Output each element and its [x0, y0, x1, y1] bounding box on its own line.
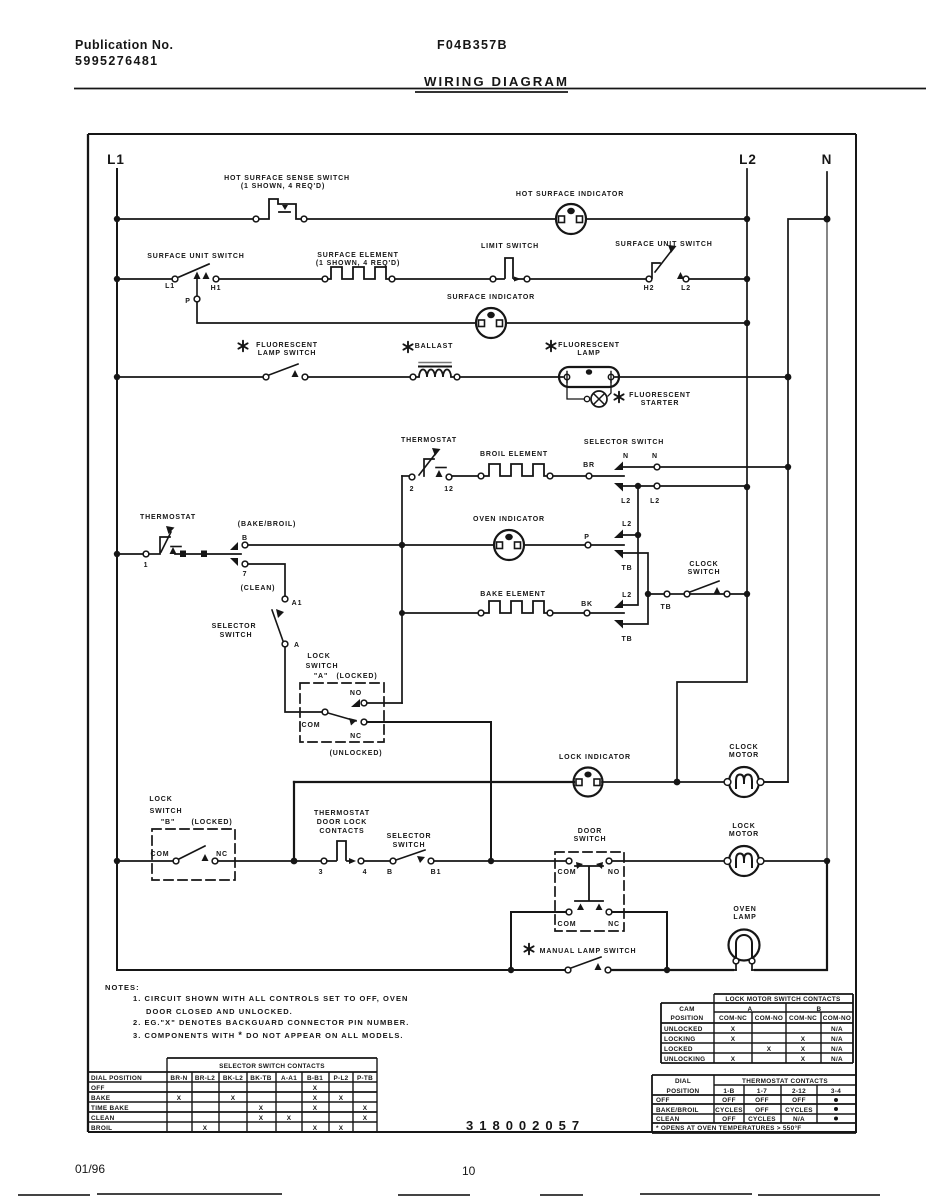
svg-text:COM: COM: [558, 921, 577, 928]
svg-text:X: X: [801, 1036, 806, 1043]
svg-text:THERMOSTAT: THERMOSTAT: [401, 437, 457, 444]
svg-text:THERMOSTAT: THERMOSTAT: [314, 810, 370, 817]
svg-text:5995276481: 5995276481: [75, 54, 159, 68]
svg-text:(LOCKED): (LOCKED): [336, 673, 377, 680]
svg-text:Publication No.: Publication No.: [75, 38, 173, 52]
svg-text:(LOCKED): (LOCKED): [191, 819, 232, 826]
svg-text:OFF: OFF: [722, 1097, 736, 1104]
svg-text:OFF: OFF: [91, 1085, 105, 1092]
svg-text:CYCLES: CYCLES: [748, 1116, 776, 1123]
svg-text:LOCKED: LOCKED: [664, 1046, 693, 1053]
svg-text:X: X: [259, 1105, 264, 1112]
svg-text:F04B357B: F04B357B: [437, 38, 508, 52]
svg-text:TB: TB: [660, 604, 671, 611]
svg-text:10: 10: [462, 1164, 476, 1178]
svg-text:(BAKE/BROIL): (BAKE/BROIL): [238, 521, 296, 528]
svg-text:LOCKING: LOCKING: [664, 1036, 696, 1043]
svg-text:X: X: [339, 1125, 344, 1132]
svg-text:MANUAL LAMP SWITCH: MANUAL LAMP SWITCH: [540, 948, 637, 955]
svg-text:MOTOR: MOTOR: [729, 831, 759, 838]
svg-text:CYCLES: CYCLES: [715, 1107, 743, 1114]
svg-text:COM: COM: [151, 851, 170, 858]
svg-text:LOCK MOTOR SWITCH CONTACTS: LOCK MOTOR SWITCH CONTACTS: [725, 996, 841, 1003]
svg-text:OVEN: OVEN: [733, 906, 756, 913]
svg-text:A1: A1: [292, 600, 303, 607]
svg-text:X: X: [313, 1105, 318, 1112]
svg-text:BALLAST: BALLAST: [415, 343, 454, 350]
svg-text:A: A: [748, 1006, 753, 1013]
svg-text:X: X: [731, 1056, 736, 1063]
svg-text:MOTOR: MOTOR: [729, 752, 759, 759]
svg-text:X: X: [801, 1056, 806, 1063]
svg-text:DIAL POSITION: DIAL POSITION: [91, 1075, 142, 1082]
svg-text:N: N: [822, 152, 833, 167]
svg-text:COM-NC: COM-NC: [719, 1015, 747, 1022]
svg-text:X: X: [801, 1046, 806, 1053]
svg-text:01/96: 01/96: [75, 1162, 105, 1176]
svg-text:(1 SHOWN, 4 REQ'D): (1 SHOWN, 4 REQ'D): [316, 260, 400, 267]
svg-text:SELECTOR: SELECTOR: [212, 623, 257, 630]
svg-text:DOOR CLOSED AND UNLOCKED.: DOOR CLOSED AND UNLOCKED.: [146, 1007, 293, 1016]
svg-text:TB: TB: [621, 565, 632, 572]
svg-text:L2: L2: [621, 498, 631, 505]
svg-text:BROIL: BROIL: [91, 1125, 112, 1132]
svg-text:BK: BK: [581, 601, 593, 608]
svg-text:LAMP: LAMP: [733, 914, 756, 921]
svg-text:CLEAN: CLEAN: [91, 1115, 115, 1122]
svg-text:STARTER: STARTER: [641, 400, 680, 407]
svg-text:2: 2: [410, 486, 415, 493]
svg-text:FLUORESCENT: FLUORESCENT: [629, 392, 691, 399]
svg-text:A-A1: A-A1: [281, 1075, 297, 1082]
svg-text:N/A: N/A: [831, 1046, 843, 1053]
svg-text:7: 7: [243, 571, 248, 578]
svg-text:OVEN INDICATOR: OVEN INDICATOR: [473, 516, 545, 523]
svg-text:X: X: [313, 1125, 318, 1132]
svg-text:L1: L1: [165, 283, 175, 290]
svg-text:1-7: 1-7: [757, 1088, 767, 1095]
svg-text:X: X: [259, 1115, 264, 1122]
svg-text:COM-NO: COM-NO: [755, 1015, 783, 1022]
svg-text:SELECTOR SWITCH: SELECTOR SWITCH: [584, 439, 664, 446]
svg-text:N/A: N/A: [831, 1026, 843, 1033]
svg-text:X: X: [313, 1095, 318, 1102]
svg-text:LOCK: LOCK: [732, 823, 755, 830]
svg-text:BROIL ELEMENT: BROIL ELEMENT: [480, 451, 548, 458]
svg-text:2. EG."X" DENOTES BACKGUARD C: 2. EG."X" DENOTES BACKGUARD CONNECTOR PI…: [133, 1018, 409, 1027]
svg-text:X: X: [767, 1046, 772, 1053]
svg-text:SWITCH: SWITCH: [574, 836, 607, 843]
svg-text:BAKE ELEMENT: BAKE ELEMENT: [480, 591, 545, 598]
svg-text:B1: B1: [431, 869, 442, 876]
svg-text:THERMOSTAT CONTACTS: THERMOSTAT CONTACTS: [742, 1078, 828, 1085]
svg-text:COM-NO: COM-NO: [823, 1015, 851, 1022]
svg-text:X: X: [731, 1026, 736, 1033]
svg-text:H1: H1: [211, 285, 222, 292]
svg-text:COM-NC: COM-NC: [789, 1015, 817, 1022]
svg-text:OFF: OFF: [792, 1097, 806, 1104]
svg-text:SWITCH: SWITCH: [688, 569, 721, 576]
svg-text:BK-L2: BK-L2: [223, 1075, 243, 1082]
svg-text:X: X: [363, 1105, 368, 1112]
svg-text:UNLOCKING: UNLOCKING: [664, 1056, 705, 1063]
svg-text:B: B: [817, 1006, 822, 1013]
svg-text:BR-L2: BR-L2: [195, 1075, 215, 1082]
svg-text:NO: NO: [608, 869, 620, 876]
svg-text:X: X: [287, 1115, 292, 1122]
svg-text:BAKE: BAKE: [91, 1095, 111, 1102]
svg-text:12: 12: [444, 486, 454, 493]
svg-text:* OPENS AT OVEN TEMPERATURES: * OPENS AT OVEN TEMPERATURES > 550°F: [656, 1124, 802, 1132]
svg-text:X: X: [203, 1125, 208, 1132]
svg-text:SWITCH: SWITCH: [150, 808, 183, 815]
svg-text:SURFACE INDICATOR: SURFACE INDICATOR: [447, 294, 535, 301]
svg-text:FLUORESCENT: FLUORESCENT: [256, 342, 318, 349]
svg-text:N/A: N/A: [793, 1116, 805, 1123]
svg-text:HOT SURFACE SENSE SWITCH: HOT SURFACE SENSE SWITCH: [224, 175, 350, 182]
svg-text:318002057: 318002057: [466, 1118, 585, 1133]
svg-text:L2: L2: [650, 498, 660, 505]
svg-text:BAKE/BROIL: BAKE/BROIL: [656, 1107, 699, 1114]
svg-text:(1 SHOWN, 4 REQ'D): (1 SHOWN, 4 REQ'D): [241, 183, 325, 190]
svg-text:COM: COM: [558, 869, 577, 876]
svg-text:LIMIT SWITCH: LIMIT SWITCH: [481, 243, 539, 250]
svg-text:DOOR LOCK: DOOR LOCK: [317, 819, 367, 826]
svg-text:SURFACE UNIT SWITCH: SURFACE UNIT SWITCH: [147, 253, 244, 260]
svg-text:WIRING DIAGRAM: WIRING DIAGRAM: [424, 74, 569, 89]
svg-text:LOCK INDICATOR: LOCK INDICATOR: [559, 754, 631, 761]
svg-text:X: X: [731, 1036, 736, 1043]
svg-text:(CLEAN): (CLEAN): [241, 585, 276, 592]
svg-text:X: X: [177, 1095, 182, 1102]
svg-text:B: B: [242, 535, 248, 542]
svg-text:OFF: OFF: [755, 1107, 769, 1114]
svg-text:SURFACE ELEMENT: SURFACE ELEMENT: [317, 252, 399, 259]
svg-text:X: X: [339, 1095, 344, 1102]
svg-text:CLOCK: CLOCK: [689, 561, 718, 568]
svg-text:X: X: [231, 1095, 236, 1102]
svg-text:THERMOSTAT: THERMOSTAT: [140, 514, 196, 521]
svg-text:LOCK: LOCK: [307, 653, 330, 660]
svg-text:H2: H2: [644, 285, 655, 292]
svg-text:CLOCK: CLOCK: [729, 744, 758, 751]
svg-text:SWITCH: SWITCH: [220, 632, 253, 639]
svg-text:1. CIRCUIT SHOWN WITH ALL CON: 1. CIRCUIT SHOWN WITH ALL CONTROLS SET T…: [133, 994, 409, 1003]
svg-text:OFF: OFF: [656, 1097, 670, 1104]
svg-text:P: P: [584, 534, 590, 541]
svg-text:N/A: N/A: [831, 1056, 843, 1063]
svg-text:2-12: 2-12: [792, 1088, 806, 1095]
svg-text:L1: L1: [107, 152, 125, 167]
svg-text:N: N: [623, 453, 629, 460]
svg-text:LOCK: LOCK: [149, 796, 172, 803]
svg-text:BR-N: BR-N: [170, 1075, 187, 1082]
svg-text:NC: NC: [608, 921, 620, 928]
svg-text:P-L2: P-L2: [333, 1075, 348, 1082]
svg-text:X: X: [313, 1085, 318, 1092]
svg-text:TB: TB: [621, 636, 632, 643]
svg-text:CONTACTS: CONTACTS: [319, 828, 364, 835]
svg-text:N: N: [652, 453, 658, 460]
svg-text:SWITCH: SWITCH: [393, 842, 426, 849]
svg-text:POSITION: POSITION: [667, 1088, 700, 1095]
svg-text:CLEAN: CLEAN: [656, 1116, 680, 1123]
svg-text:3: 3: [319, 869, 324, 876]
svg-text:P-TB: P-TB: [357, 1075, 373, 1082]
svg-text:1-B: 1-B: [723, 1088, 734, 1095]
svg-text:LAMP: LAMP: [577, 350, 600, 357]
svg-text:4: 4: [363, 869, 368, 876]
svg-text:SURFACE UNIT SWITCH: SURFACE UNIT SWITCH: [615, 241, 712, 248]
svg-text:POSITION: POSITION: [671, 1015, 704, 1022]
svg-text:COM: COM: [302, 722, 321, 729]
svg-text:BK-TB: BK-TB: [250, 1075, 271, 1082]
svg-text:3-4: 3-4: [831, 1088, 841, 1095]
svg-text:B: B: [387, 869, 393, 876]
svg-text:"B": "B": [161, 819, 175, 826]
svg-text:L2: L2: [622, 521, 632, 528]
svg-text:NC: NC: [350, 733, 362, 740]
svg-text:SWITCH: SWITCH: [306, 663, 339, 670]
svg-text:UNLOCKED: UNLOCKED: [664, 1026, 703, 1033]
svg-text:DOOR: DOOR: [578, 828, 602, 835]
svg-text:DIAL: DIAL: [675, 1078, 691, 1085]
svg-text:L2: L2: [681, 285, 691, 292]
svg-text:HOT SURFACE INDICATOR: HOT SURFACE INDICATOR: [516, 191, 624, 198]
svg-text:SELECTOR: SELECTOR: [387, 833, 432, 840]
svg-text:A: A: [294, 642, 300, 649]
svg-text:CAM: CAM: [679, 1006, 694, 1013]
svg-text:OFF: OFF: [722, 1116, 736, 1123]
svg-text:(UNLOCKED): (UNLOCKED): [330, 750, 383, 757]
svg-text:NO: NO: [350, 690, 362, 697]
svg-text:NOTES:: NOTES:: [105, 983, 140, 992]
svg-text:SELECTOR SWITCH CONTACTS: SELECTOR SWITCH CONTACTS: [219, 1063, 325, 1070]
svg-text:FLUORESCENT: FLUORESCENT: [558, 342, 620, 349]
svg-text:LAMP SWITCH: LAMP SWITCH: [258, 350, 317, 357]
svg-text:L2: L2: [739, 152, 757, 167]
svg-text:N/A: N/A: [831, 1036, 843, 1043]
svg-text:OFF: OFF: [755, 1097, 769, 1104]
svg-text:CYCLES: CYCLES: [785, 1107, 813, 1114]
svg-text:L2: L2: [622, 592, 632, 599]
svg-text:1: 1: [144, 562, 149, 569]
svg-text:P: P: [185, 298, 191, 305]
svg-text:B-B1: B-B1: [307, 1075, 323, 1082]
svg-text:3. COMPONENTS WITH * DO NOT A: 3. COMPONENTS WITH * DO NOT APPEAR ON AL…: [133, 1030, 404, 1040]
svg-text:X: X: [363, 1115, 368, 1122]
svg-text:"A": "A": [314, 673, 328, 680]
svg-text:BR: BR: [583, 462, 595, 469]
svg-text:NC: NC: [216, 851, 228, 858]
svg-text:TIME BAKE: TIME BAKE: [91, 1105, 129, 1112]
